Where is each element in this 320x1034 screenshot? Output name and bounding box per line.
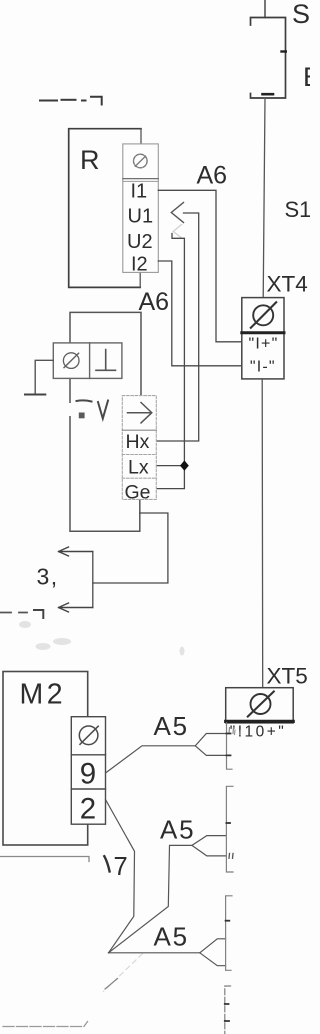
PV remnant dot [79,413,85,419]
XT4 shield symbol (circle with slash) [253,305,273,325]
corner mark at left edge [34,610,43,618]
svg-text:I1: I1 [131,181,148,203]
wire: U2 tail down to Lx junction and Ge [157,234,185,489]
arrow left (upper) [59,547,93,556]
XT5 bracket 3 [226,896,232,971]
XT5 bracket 4 [225,986,231,1034]
component S1 sender box (top right, open left side) [251,18,286,99]
wire: convergence to A5 third chevron [109,952,200,954]
wire: U1 arrow tail down to Hx [157,213,199,441]
quote mark near bracket 2 pin [229,854,233,859]
svg-text:A5: A5 [154,922,189,952]
transducer box (shield + earth) on A6 left edge [53,343,122,379]
svg-text:3,: 3, [37,564,59,590]
svg-text:S1: S1 [285,197,311,222]
XT5 bracket 2 [226,786,233,872]
darker remnant of spur [105,979,118,990]
component box A7 unit (below M2, faint) [0,857,89,862]
tick bracket 2 [226,822,230,824]
svg-text:M2: M2 [20,679,67,711]
wire: I2 to XT4 "I-" [158,261,242,366]
right-arrow symbol in top cell [128,403,152,423]
component box A6 unit (left tall box) [70,312,141,531]
wire: Ge column bottom, branch right and down to arrows [93,513,168,583]
pin ticks bracket 1 [227,734,231,756]
chevron split to bracket 2 pins [192,836,227,856]
wire: M2 pin 9 to XT5 connector [106,746,196,773]
XT5 shield symbol [251,694,271,714]
wire: S1 box to XT4 [263,98,265,298]
chevron split to bracket 3 pins [200,939,226,966]
wire: M2 pin 2 down to convergence [106,800,135,953]
svg-text:Ge: Ge [125,481,151,503]
svg-text:"I10+": "I10+" [230,724,287,741]
wire: connector column bottom to R box bottom [139,272,141,287]
svg-text:A5: A5 [160,815,195,845]
svg-text:"I-": "I-" [250,359,276,376]
wire: vertical between left arrows [92,552,94,608]
svg-text:Hx: Hx [126,431,150,453]
svg-text:7: 7 [114,853,128,881]
wire: Lx to junction [157,465,185,467]
XT5 bracket 1 [227,723,233,769]
terminal block XT5 [226,688,294,723]
XT5 thick divider [226,720,294,723]
faint quote mark near bracket 1 pin [235,730,241,735]
ticks bracket 4 [225,1004,229,1021]
wire: shield cell to ground [35,360,53,394]
component R box [69,129,141,288]
connector column on A6 (arrow / Hx / Lx / Ge) [122,396,156,500]
svg-text:Lx: Lx [128,456,149,478]
R connector shield symbol (sketchy circle) [134,154,148,168]
clipped text marks at top left [40,97,102,105]
svg-text:9: 9 [80,757,96,790]
border under arrow cell [122,429,156,431]
wire: feed into sender box S1 from top edge [264,0,266,18]
label A7 (partially faded A) [104,856,109,871]
connector column on R (shield + I1/U1/U2/I2) [123,144,159,273]
shield symbol in left cell [63,353,79,369]
svg-text:U2: U2 [127,231,153,253]
arrow left (lower) [59,603,93,612]
wire: R box top to connector column [140,129,142,144]
wire: XT4 down to XT5 [261,379,264,688]
XT4 thick divider [242,331,284,334]
dashed mark at left edge [0,612,27,614]
wire: from convergence up to A5 second chevron [109,845,192,952]
svg-text:A6: A6 [197,162,228,190]
svg-text:U1: U1 [128,206,154,228]
faint spur diagonal below convergence [104,954,143,992]
connector column on M2 (shield / 9 / 2) [71,717,105,825]
svg-text:R: R [80,145,100,175]
faint smudges [19,621,185,656]
wire: I1 to XT4 "I+" [158,190,242,341]
junction (solid diamond) on Lx [180,460,189,470]
chevron split to XT5 pins [195,734,226,756]
double border under shield cell [123,178,159,180]
svg-text:XT4: XT4 [267,272,308,297]
erased label PV remnants [77,400,109,418]
faint arrow remnant at U2 [173,225,181,238]
A7 unit bottom edge (faint dashed) [3,1022,88,1027]
minus mark inside S1 box [263,93,274,96]
svg-text:A6: A6 [139,288,170,316]
arrow (open) pointing left at U1 [171,203,183,223]
svg-text:XT5: XT5 [267,664,308,689]
white-out gap on A6 left edge [67,403,74,416]
earth symbol in right cell [96,350,116,371]
M2 shield symbol [79,726,98,745]
svg-text:S1: S1 [292,0,310,29]
svg-text:I2: I2 [131,254,148,276]
ground [25,394,45,396]
tick bracket 3 [226,920,230,922]
svg-text:B: B [303,62,310,92]
svg-text:A5: A5 [154,711,189,741]
terminal block XT4 [242,298,284,379]
svg-text:2: 2 [80,793,96,826]
tick on right edge of S1 box [282,50,286,52]
component M2 box [3,672,88,846]
svg-text:"I+": "I+" [249,336,279,353]
